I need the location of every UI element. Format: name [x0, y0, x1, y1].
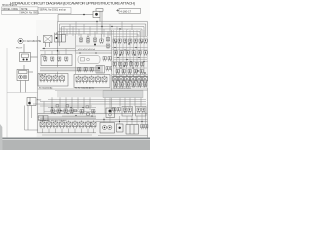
bank top rail: [38, 113, 148, 115]
lattice valve r20: [116, 70, 119, 75]
bus right corner verticals: [138, 22, 148, 138]
box2 valve b: [83, 76, 88, 84]
lattice valve r17: [130, 62, 133, 67]
cluster right row2 v4: [132, 83, 135, 88]
bank left vertical: [37, 114, 39, 133]
lattice valve r10: [126, 51, 129, 56]
main bank valve b4: [60, 121, 65, 129]
svg-text:MODEL CODE: MODEL CODE: [3, 9, 19, 11]
mid band cluster right w5: [137, 75, 142, 83]
left drop wires: [25, 106, 39, 131]
box C valve 4: [65, 57, 68, 62]
lattice valve r19: [141, 62, 144, 67]
mid row valve a: [78, 68, 81, 73]
lattice valve r14: [113, 62, 116, 67]
bus comb verticals: [64, 22, 132, 38]
mid band box 2: [74, 75, 110, 88]
mid band cluster right w2: [119, 75, 124, 83]
box C valve 1: [44, 57, 47, 62]
main bank valve b5: [66, 121, 71, 129]
aux comp bottom: [117, 124, 124, 132]
link line h2: [40, 50, 112, 52]
cluster right row2 v2: [120, 83, 123, 88]
right lattice wash: [112, 36, 148, 88]
main bank valve b1: [40, 121, 45, 129]
box D: [38, 74, 68, 87]
box D valve 3: [53, 75, 58, 83]
page background: [0, 0, 150, 150]
center valve column 1: [79, 34, 82, 43]
lattice left divider: [111, 30, 113, 114]
box D valve 1: [40, 75, 45, 83]
lattice dots: [114, 41, 145, 73]
lattice valve r24: [140, 70, 143, 75]
box2 valve a: [76, 76, 81, 84]
center valve column 3: [93, 32, 96, 46]
pilot mini rect 4: [86, 106, 89, 108]
right lattice verticals: [114, 30, 145, 88]
svg-text:SERIAL No.00101 and up: SERIAL No.00101 and up: [40, 9, 67, 12]
pilot valve p4: [70, 109, 73, 114]
lattice valve r21: [122, 70, 125, 75]
legend table: [2, 7, 39, 14]
solenoid valve unit SV: [20, 44, 38, 62]
lower verticals: [44, 97, 141, 113]
center link dots: [79, 52, 80, 53]
svg-text:PILOT: PILOT: [16, 48, 23, 50]
pilot valve p5: [80, 110, 83, 115]
bank sub rail: [42, 134, 92, 136]
accumulator A1: [18, 38, 27, 43]
rounded manifold: [78, 56, 100, 64]
svg-text:ACCUM.CHG: ACCUM.CHG: [27, 40, 41, 43]
lattice valve r3: [124, 39, 127, 44]
center link h2b: [76, 45, 111, 47]
enclosure frame left: [7, 48, 38, 137]
mid band cluster right w3: [125, 75, 130, 83]
lattice valve r15: [119, 62, 122, 67]
lattice valve r2: [118, 39, 121, 44]
box C valve 3: [58, 57, 61, 62]
filter box bottom: [126, 125, 139, 135]
gray tank band dark right: [103, 91, 143, 98]
legend note box: [38, 8, 71, 14]
box2 valve c: [89, 76, 94, 84]
bottom right rail: [98, 134, 148, 136]
main bank valve b8: [86, 121, 91, 129]
right cluster box RB: [136, 107, 147, 117]
lattice valve r18: [135, 62, 138, 67]
pilot mini rect 2: [66, 105, 69, 107]
pump drop line b: [25, 81, 27, 93]
revision tag box top right: [119, 8, 141, 13]
lower link h5b: [48, 98, 146, 100]
svg-text:NOTE: NOTE: [21, 9, 28, 11]
lattice valve r6: [139, 39, 142, 44]
pilot valve p1: [51, 109, 54, 114]
collector line h5: [55, 89, 148, 91]
lattice valve r4: [129, 39, 132, 44]
svg-text:a1 b1 a2 b2 a3 b3 a4: a1 b1 a2 b2 a3 b3 a4: [78, 49, 95, 51]
lower link h7: [33, 103, 146, 105]
revision tag pointer: [116, 9, 119, 11]
center column divider: [75, 34, 77, 74]
svg-text:MACH. No. 0501-: MACH. No. 0501-: [21, 12, 39, 15]
lattice valve r8: [114, 51, 117, 56]
lattice valve r22: [128, 70, 131, 75]
mid row valve e: [111, 67, 114, 72]
main bank valve b3: [53, 121, 58, 129]
mid row valve d: [106, 67, 109, 72]
center band wash: [57, 36, 112, 54]
lattice valve r16: [124, 62, 127, 67]
inlet twin box: [39, 116, 49, 121]
box C valve 2: [51, 57, 54, 62]
main bank valve b2: [47, 121, 52, 129]
motor feed vertical b: [101, 11, 103, 34]
gray band mid: [40, 67, 100, 72]
bottom loose valve 1: [141, 125, 144, 130]
pilot mini rect 1: [56, 105, 59, 107]
bus left corner verticals: [58, 22, 62, 77]
svg-text:HITACHI EX-5: HITACHI EX-5: [2, 4, 17, 7]
box D valve 4: [60, 75, 65, 83]
right link dots: [103, 119, 142, 122]
svg-text:KVH-7P: KVH-7P: [39, 75, 47, 77]
RA valve 1: [124, 108, 127, 113]
lattice valve r23: [134, 70, 137, 75]
mid band cluster right w4: [131, 75, 136, 83]
motor M1: [93, 9, 103, 18]
pilot link lines: [40, 106, 96, 119]
pilot mini rect 3: [74, 109, 77, 111]
mid group A valve: [44, 36, 53, 48]
right loose valve RC: [113, 108, 116, 113]
scan shadow bottom band: [0, 140, 150, 151]
bank bottom rail: [38, 132, 97, 134]
box2 valve d: [96, 76, 101, 84]
box C feed stubs: [45, 49, 66, 55]
RA valve 2: [128, 108, 131, 113]
lattice valve r9: [120, 51, 123, 56]
lattice valve r5: [134, 39, 137, 44]
main bank valve b7: [79, 121, 84, 129]
center valve column 4: [100, 34, 103, 44]
right link h9: [96, 121, 148, 123]
svg-text:KVH: KVH: [42, 56, 47, 58]
bus lines: [58, 22, 148, 35]
RB valve 2: [142, 108, 145, 113]
mid band cluster right w1: [113, 75, 118, 83]
box2 valve e: [102, 76, 107, 84]
right link stubs: [104, 113, 146, 125]
lattice valve r12: [138, 51, 141, 56]
dark cluster mid: [96, 66, 105, 74]
pump drop line a: [20, 81, 22, 93]
pilot circle: [86, 112, 90, 116]
right loose valve RD: [117, 108, 120, 113]
center valve column 5: [106, 32, 109, 49]
cluster right row2 v1: [114, 83, 117, 88]
motor feed vertical a: [99, 18, 101, 22]
mid group B valve: [55, 35, 66, 43]
collector line h4: [38, 88, 148, 90]
bank second rail: [38, 116, 97, 118]
gray tank band: [57, 91, 143, 97]
right lattice horizontals: [112, 48, 148, 75]
lattice rungs: [114, 37, 148, 87]
page bottom border: [0, 138, 150, 140]
link line h1: [42, 48, 75, 50]
bottom band wash: [37, 104, 148, 137]
mid row valve c: [90, 68, 93, 73]
center link h3: [76, 52, 112, 54]
top feed line: [58, 15, 93, 22]
mid band cluster right w6: [143, 75, 148, 83]
scan shadow left sliver: [0, 124, 3, 150]
pilot valve p3: [64, 109, 67, 114]
svg-text:4-160-17: 4-160-17: [120, 9, 131, 13]
swing motor comp: [106, 108, 115, 118]
manifold inner mark 1: [81, 58, 85, 62]
twin pump unit P1 P2: [17, 65, 33, 81]
main bank valve b9: [91, 121, 96, 129]
cluster right row2 v6: [144, 83, 147, 88]
box D valve 2: [47, 75, 52, 83]
RB valve 1: [137, 108, 140, 113]
drawing area wash: [36, 20, 148, 138]
right cluster box RA: [122, 107, 133, 117]
right-mid small column b: [108, 57, 111, 62]
pump box bottom: [100, 123, 115, 134]
pilot dots: [51, 107, 92, 117]
cluster right row2 v3: [126, 83, 129, 88]
relief valve RV1: [27, 98, 36, 106]
lattice valve r7: [144, 39, 147, 44]
bank tick marks: [43, 129, 94, 133]
bus junction dots: [96, 21, 120, 30]
legend texts: [3, 9, 67, 15]
pilot valve p2: [57, 109, 60, 114]
big box C: [41, 55, 72, 66]
link dots: [43, 48, 44, 49]
mid row valve b: [84, 68, 87, 73]
svg-text:PSV: PSV: [37, 100, 42, 102]
right link h8: [38, 119, 148, 121]
bottom loose valve 2: [145, 125, 148, 130]
svg-text:4-SP: 4-SP: [54, 33, 59, 35]
lattice valve r13: [144, 51, 147, 56]
main bank valve b6: [73, 121, 78, 129]
manifold inner mark 2: [87, 58, 90, 61]
lattice valve r1: [113, 39, 116, 44]
junction dot J1: [83, 14, 85, 16]
right-mid small column a: [103, 57, 106, 62]
cluster right row2 v5: [138, 83, 141, 88]
frame vertical mid-left: [37, 36, 39, 114]
center valve column 2: [86, 34, 89, 44]
lattice valve r11: [132, 51, 135, 56]
gray band mid lines: [40, 68, 100, 71]
pilot valve p6: [92, 110, 95, 115]
svg-text:HYDRAULIC CIRCUIT DIAGRAM (EXC: HYDRAULIC CIRCUIT DIAGRAM (EXCAVATOR UPP…: [10, 1, 136, 6]
lower link h6: [40, 101, 146, 103]
